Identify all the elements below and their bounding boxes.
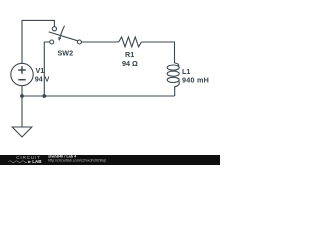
svg-text:94 Ω: 94 Ω (122, 59, 138, 68)
svg-text:R1: R1 (125, 50, 134, 59)
svg-text:SW2: SW2 (58, 49, 74, 58)
svg-text:LAB: LAB (32, 159, 42, 164)
svg-text:http://circuitlab.com/c2mxdh39: http://circuitlab.com/c2mxdh3928iqt (48, 159, 106, 163)
svg-text:94 V: 94 V (35, 75, 50, 84)
svg-text:940 mH: 940 mH (182, 75, 209, 84)
